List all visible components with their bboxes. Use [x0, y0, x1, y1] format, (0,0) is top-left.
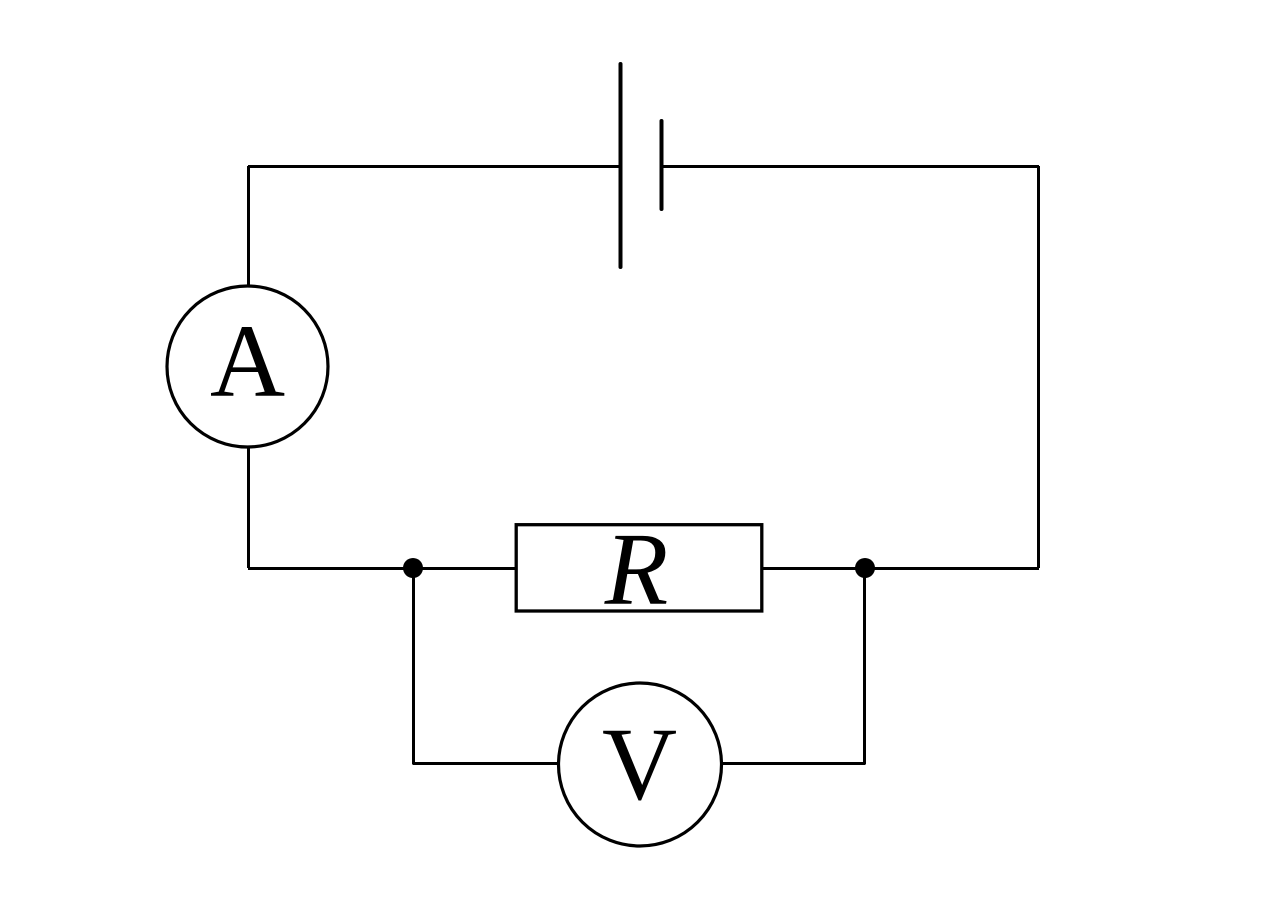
svg-text:A: A — [210, 304, 285, 419]
svg-text:R: R — [604, 512, 669, 627]
svg-text:V: V — [602, 707, 677, 822]
